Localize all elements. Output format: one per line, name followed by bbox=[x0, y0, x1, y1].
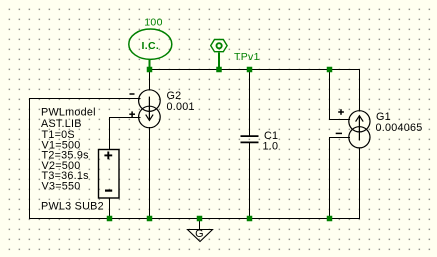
svg-text:G: G bbox=[195, 228, 204, 240]
G2 arrow down bbox=[146, 97, 153, 121]
node junction at C1 top bbox=[247, 67, 253, 73]
G1 plus sign bbox=[338, 109, 344, 115]
svg-text:0.001: 0.001 bbox=[167, 101, 195, 113]
svg-text:TPv1: TPv1 bbox=[234, 51, 260, 63]
wire G2 plus stub to PWL source bbox=[109, 118, 141, 151]
current source G1 (two circles, up arrow) bbox=[349, 111, 370, 148]
wire V1 bottom to ground bus bbox=[109, 198, 111, 218]
node junction at ground bbox=[197, 216, 203, 222]
G1 minus sign bbox=[336, 132, 342, 134]
ground symbol triangle bbox=[188, 230, 213, 242]
svg-text:PWLmodel: PWLmodel bbox=[41, 106, 96, 118]
node junction at TPv1 bbox=[216, 67, 222, 73]
wire bottom ground bus bbox=[29, 218, 360, 220]
TPv1 stem bbox=[218, 53, 220, 68]
node junction at G2 bottom bbox=[147, 216, 153, 222]
wire G1 bottom to ground bus bbox=[359, 148, 361, 218]
node junction at G1 sense bottom bbox=[327, 216, 333, 222]
G2 minus sign bbox=[130, 93, 135, 95]
PWL subcircuit box (left and top edges) bbox=[29, 98, 141, 219]
wire G2 top to bus bbox=[149, 69, 151, 91]
voltage source V1 PWL rect bbox=[99, 150, 120, 199]
svg-text:0.004065: 0.004065 bbox=[376, 122, 423, 134]
wire top bus node 1 bbox=[149, 69, 360, 71]
wire G1 sense minus branch bbox=[329, 138, 350, 219]
wire C1 top branch bbox=[249, 69, 251, 136]
wire C1 bottom branch bbox=[249, 143, 251, 218]
I.C. stem bbox=[149, 59, 151, 67]
svg-text:1.0: 1.0 bbox=[263, 141, 279, 153]
node junction at V1 bottom bbox=[107, 216, 113, 222]
svg-text:100: 100 bbox=[144, 16, 162, 28]
svg-text:I.C.: I.C. bbox=[142, 40, 160, 52]
svg-text:V3=550: V3=550 bbox=[42, 181, 81, 193]
current source G2 (two circles, down arrow) bbox=[139, 90, 161, 128]
G2 plus sign bbox=[129, 111, 135, 117]
initial condition symbol I.C. bbox=[129, 29, 172, 59]
node junction at C1 bottom bbox=[247, 216, 253, 222]
G1 arrow up bbox=[356, 116, 364, 141]
capacitor C1 plates bbox=[241, 136, 259, 142]
wire G1 sense plus branch bbox=[329, 69, 350, 120]
V1 plus sign bbox=[104, 152, 112, 160]
svg-text:PWL3 SUB2: PWL3 SUB2 bbox=[41, 201, 104, 213]
wire G1 top to bus bbox=[359, 69, 361, 112]
wire G2 bottom to ground bus bbox=[149, 127, 151, 218]
node junction at I.C./G2 top bbox=[147, 67, 153, 73]
ground symbol stem bbox=[199, 221, 201, 230]
PWL model text block bbox=[41, 106, 104, 212]
V1 minus sign bbox=[105, 190, 112, 192]
node junction at G1 sense top bbox=[327, 67, 333, 73]
test point TPv1 hexagon bbox=[211, 40, 227, 52]
